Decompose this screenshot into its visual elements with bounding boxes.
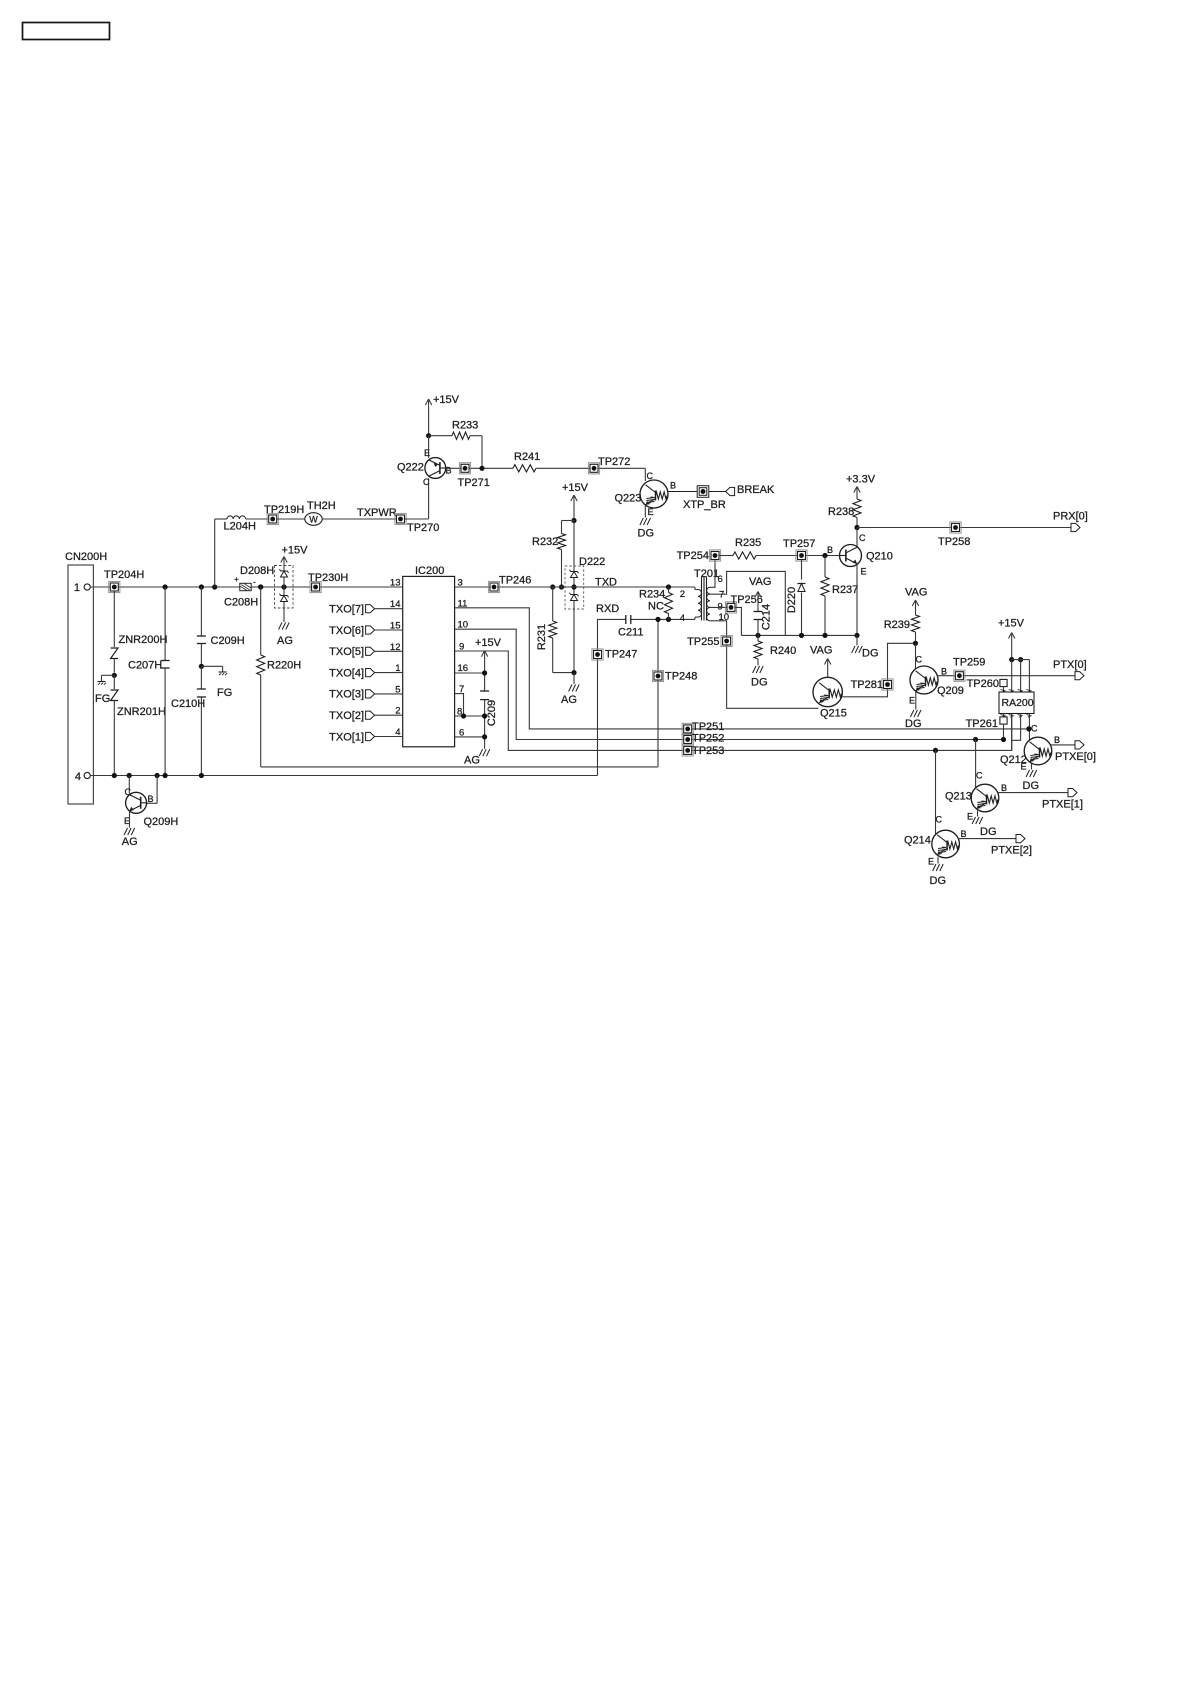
wire: Q222 base to TP272	[446, 467, 513, 469]
testpoint TP258	[950, 522, 961, 533]
svg-text:R231: R231	[536, 624, 548, 650]
svg-text:E: E	[648, 507, 654, 517]
svg-text:C207H: C207H	[128, 660, 162, 672]
svg-text:TXO[5]: TXO[5]	[329, 646, 364, 658]
svg-text:VAG: VAG	[749, 576, 771, 588]
testpoint TP256	[725, 602, 736, 613]
svg-text:TP251: TP251	[692, 721, 724, 733]
wire: CN200H pin4 net	[90, 775, 597, 777]
node: +15V branch	[1009, 657, 1014, 662]
capacitor C209	[480, 690, 489, 692]
testpoint TP271	[459, 463, 470, 474]
svg-text:Q213: Q213	[945, 791, 972, 803]
svg-text:TP254: TP254	[677, 550, 709, 562]
connector PRX[0]	[1071, 523, 1080, 531]
svg-text:2: 2	[395, 706, 400, 717]
node: TP251/Q212 junction	[1026, 726, 1031, 731]
wire: PRX[0] net	[857, 527, 1071, 529]
svg-text:C211: C211	[618, 627, 643, 639]
svg-text:DG: DG	[980, 826, 997, 838]
testpoint TP260	[1000, 679, 1007, 686]
svg-text:Q209H: Q209H	[144, 816, 179, 828]
ground AG (under D222)	[573, 673, 575, 684]
ground AG (under C209)	[479, 749, 482, 756]
svg-text:TXO[2]: TXO[2]	[329, 710, 364, 722]
node: ZNR junction	[112, 673, 117, 678]
svg-text:+15V: +15V	[562, 482, 589, 494]
testpoint XTP_BR	[697, 486, 709, 498]
node: C209H/C210H junction	[199, 664, 204, 669]
svg-text:C208H: C208H	[224, 597, 258, 609]
wire: T201 pin9 to TP256	[710, 606, 727, 608]
svg-text:C: C	[125, 787, 132, 797]
svg-text:TP247: TP247	[605, 649, 637, 661]
connector PTXE[2]	[1016, 835, 1025, 843]
Q209 emitter to ground	[915, 692, 917, 710]
svg-text:TP270: TP270	[407, 522, 439, 534]
junction dots on TXD right	[666, 584, 671, 589]
svg-text:TP272: TP272	[598, 456, 630, 468]
svg-text:14: 14	[390, 599, 401, 610]
svg-text:TP230H: TP230H	[308, 572, 348, 584]
ground FG (middle)	[219, 671, 227, 673]
testpoint TP272	[588, 463, 599, 474]
wire: R220H net to TP248 vertical	[261, 766, 658, 768]
svg-text:C: C	[859, 533, 866, 543]
wire: T201 pin10 down through TP255 to Q215	[710, 621, 819, 709]
testpoint TP281	[882, 679, 893, 690]
svg-text:DG: DG	[930, 875, 947, 887]
resistor R241	[513, 465, 536, 472]
svg-text:R239: R239	[884, 619, 910, 631]
node: R232 bottom on TXD	[559, 584, 564, 589]
svg-text:D222: D222	[579, 556, 605, 568]
svg-text:TP219H: TP219H	[264, 504, 304, 516]
svg-text:Q215: Q215	[820, 708, 847, 720]
wire: Q215 base to TP281 to R239 node	[842, 643, 915, 697]
svg-text:TXO[1]: TXO[1]	[329, 731, 364, 743]
svg-text:PTXE[0]: PTXE[0]	[1055, 751, 1096, 763]
diode D208H (dual zener, dashed box)	[275, 566, 294, 609]
svg-text:ZNR200H: ZNR200H	[119, 634, 168, 646]
testpoint TP253	[682, 745, 693, 756]
connector PTXE[0]	[1075, 741, 1084, 749]
T201 core	[701, 577, 703, 621]
svg-text:15: 15	[390, 621, 401, 632]
svg-text:E: E	[861, 567, 867, 577]
node: R237 top	[822, 553, 827, 558]
svg-text:9: 9	[718, 601, 723, 612]
testpoint TP259	[954, 670, 965, 681]
inductor L204H	[227, 516, 246, 519]
svg-text:TP252: TP252	[692, 733, 724, 745]
testpoint TP252	[682, 734, 693, 745]
capacitor C207H	[164, 587, 166, 661]
ground AG (under Q209H)	[124, 828, 127, 835]
svg-text:4: 4	[680, 613, 685, 624]
ground DG (under Q212)	[1026, 770, 1029, 777]
ground DG (under Q213)	[972, 817, 975, 824]
diode D222 (dual zener, dashed box)	[565, 566, 584, 609]
resistor R231	[550, 584, 555, 589]
svg-text:AG: AG	[122, 836, 138, 848]
svg-text:E: E	[1020, 762, 1026, 772]
svg-text:+15V: +15V	[282, 545, 309, 557]
resistor R240	[757, 635, 759, 641]
node: dot right of C208H	[258, 584, 263, 589]
Q223 emitter to ground	[644, 506, 646, 518]
svg-text:TP260: TP260	[967, 678, 999, 690]
node: R239/TP281/Q209 junction	[913, 641, 918, 646]
svg-text:R240: R240	[770, 645, 796, 657]
resistor R232	[562, 520, 575, 522]
svg-text:5: 5	[395, 684, 400, 695]
svg-text:C: C	[976, 771, 983, 781]
svg-text:W: W	[309, 515, 318, 525]
resistor R220H	[260, 587, 262, 655]
svg-text:TXO[6]: TXO[6]	[329, 625, 364, 637]
wire TXPWR	[322, 518, 396, 520]
svg-text:FG: FG	[95, 693, 110, 705]
svg-text:4: 4	[75, 771, 81, 783]
svg-text:Q209: Q209	[937, 685, 964, 697]
node: R238/PRX junction	[854, 525, 859, 530]
testpoint TP255	[721, 635, 732, 646]
wire to FG ground	[102, 674, 115, 676]
svg-text:DG: DG	[1023, 780, 1040, 792]
svg-text:Q223: Q223	[615, 493, 642, 505]
svg-text:IC200: IC200	[415, 565, 444, 577]
svg-text:C: C	[916, 655, 923, 665]
svg-text:E: E	[424, 448, 430, 458]
svg-text:TP248: TP248	[665, 671, 697, 683]
transistor Q210 (NPN)	[856, 528, 858, 547]
transistor Q209 (digital)	[915, 643, 917, 669]
Q209H collector wire	[128, 776, 130, 794]
svg-text:VAG: VAG	[810, 645, 832, 657]
svg-text:R232: R232	[532, 536, 558, 548]
ground DG (under Q223)	[640, 518, 643, 525]
svg-text:PTXE[1]: PTXE[1]	[1042, 799, 1083, 811]
svg-text:TXO[7]: TXO[7]	[329, 604, 364, 616]
svg-text:R233: R233	[452, 420, 478, 432]
svg-text:Q222: Q222	[397, 462, 424, 474]
RA200 top pins	[1011, 660, 1013, 692]
svg-text:12: 12	[390, 642, 401, 653]
svg-text:PTX[0]: PTX[0]	[1053, 659, 1087, 671]
svg-text:TP261: TP261	[966, 718, 998, 730]
svg-text:TP253: TP253	[692, 745, 724, 757]
svg-text:B: B	[961, 829, 967, 839]
connector PTXE[1]	[1068, 789, 1077, 797]
svg-text:B: B	[1054, 735, 1060, 745]
svg-text:DG: DG	[862, 648, 879, 660]
svg-text:+15V: +15V	[998, 618, 1025, 630]
svg-text:13: 13	[390, 578, 401, 589]
svg-text:XTP_BR: XTP_BR	[683, 499, 726, 511]
svg-text:FG: FG	[217, 687, 232, 699]
svg-text:DG: DG	[638, 528, 655, 540]
RA200 pin resistor marks	[1001, 690, 1006, 693]
svg-text:BREAK: BREAK	[737, 484, 775, 496]
capacitor C209H	[200, 587, 202, 636]
Q209H emitter wire	[129, 811, 131, 828]
resistor R235	[733, 552, 756, 559]
Q213 emitter to ground	[977, 811, 979, 817]
resistor R239	[912, 615, 920, 632]
testpoint TP251	[682, 723, 693, 734]
svg-text:C209H: C209H	[211, 635, 245, 647]
svg-text:R234: R234	[639, 589, 665, 601]
svg-text:AG: AG	[561, 694, 577, 706]
RA200 bottom pins	[1003, 714, 1005, 717]
wire: TP256 to bias bus	[735, 607, 741, 635]
transistor Q223 (digital)	[644, 468, 646, 481]
svg-text:ZNR201H: ZNR201H	[117, 706, 166, 718]
svg-text:PTXE[2]: PTXE[2]	[991, 845, 1032, 857]
svg-text:TP257: TP257	[783, 538, 815, 550]
wire: T201 pin6 up to TP254	[710, 560, 715, 588]
connector PTX[0]	[1075, 672, 1084, 680]
svg-text:TP255: TP255	[687, 636, 719, 648]
svg-text:C: C	[423, 477, 430, 487]
testpoint TP219H	[267, 513, 278, 524]
resistor R238	[853, 499, 861, 518]
ground DG (under R240)	[753, 666, 756, 673]
svg-text:B: B	[827, 545, 833, 555]
svg-text:TP246: TP246	[499, 575, 531, 587]
node: Q222 emitter junction	[426, 433, 431, 438]
wire: Q214 base / PTXE[2]	[958, 838, 1016, 840]
svg-text:R238: R238	[828, 506, 854, 518]
svg-text:PRX[0]: PRX[0]	[1053, 511, 1088, 523]
svg-text:DG: DG	[751, 677, 768, 689]
svg-text:R237: R237	[832, 584, 858, 596]
svg-text:1: 1	[395, 663, 400, 674]
svg-text:RA200: RA200	[1002, 697, 1034, 709]
svg-text:+: +	[234, 575, 239, 584]
capacitor C211 (series)	[625, 615, 627, 624]
ground FG (left)	[98, 681, 106, 683]
svg-text:2: 2	[680, 589, 685, 600]
svg-text:+15V: +15V	[475, 637, 502, 649]
svg-text:CN200H: CN200H	[65, 551, 107, 563]
svg-text:R235: R235	[735, 537, 761, 549]
svg-text:DG: DG	[905, 718, 922, 730]
resistor array RA200 body	[999, 692, 1034, 714]
svg-text:7: 7	[719, 589, 724, 600]
testpoint TP230H	[310, 581, 321, 592]
IC IC200 body	[403, 576, 455, 746]
testpoint TP204H	[109, 581, 120, 592]
capacitor C210H	[200, 666, 202, 689]
ground DG (under Q209)	[910, 710, 913, 717]
svg-text:L204H: L204H	[224, 521, 256, 533]
svg-text:B: B	[670, 481, 676, 491]
node: TP252 net ends	[1001, 737, 1006, 742]
svg-text:B: B	[446, 466, 452, 476]
svg-text:C: C	[1031, 724, 1038, 734]
CN200H pin 1	[84, 584, 90, 590]
wire: Q209 base / PTX[0] net	[937, 675, 1075, 677]
node: D222/R231 ground junction	[571, 670, 576, 675]
Q209H base wire	[156, 776, 158, 804]
node: TP253/Q214 junction	[933, 748, 938, 753]
svg-text:TP204H: TP204H	[104, 569, 144, 581]
testpoint TP261	[1000, 717, 1007, 724]
node: D222 on TXD	[571, 584, 576, 589]
svg-text:C210H: C210H	[171, 698, 205, 710]
svg-text:RXD: RXD	[596, 603, 619, 615]
varistor ZNR200H	[113, 592, 115, 648]
ground DG (bias bus right)	[856, 635, 858, 645]
wire: Q212 base / PTXE[0]	[1050, 744, 1075, 746]
svg-text:TP271: TP271	[458, 477, 490, 489]
wire: T201 pin7 loop to bias bus	[710, 571, 785, 635]
svg-text:1: 1	[74, 582, 80, 594]
svg-text:+3.3V: +3.3V	[846, 474, 876, 486]
ground DG (under Q214)	[933, 864, 936, 871]
connector BREAK	[726, 487, 735, 495]
Q212 emitter to ground	[1031, 764, 1033, 770]
varistor ZNR201H	[113, 675, 115, 689]
testpoint TP257	[796, 550, 807, 561]
svg-text:D208H: D208H	[240, 565, 274, 577]
svg-text:Q214: Q214	[904, 835, 931, 847]
svg-text:VAG: VAG	[905, 587, 927, 599]
node: +15V/R232 junction	[571, 518, 576, 523]
svg-text:TXO[3]: TXO[3]	[329, 689, 364, 701]
svg-text:B: B	[1001, 783, 1007, 793]
svg-text:+15V: +15V	[433, 394, 460, 406]
transistor Q215 (digital)	[813, 677, 842, 706]
wire: TP254 to Q210 base	[719, 555, 733, 557]
T201 secondary winding	[707, 587, 710, 621]
connector CN200H body	[68, 565, 93, 804]
svg-text:Q210: Q210	[866, 551, 893, 563]
svg-text:AG: AG	[277, 635, 293, 647]
wire: TXD main net from CN200H pin1 to IC200 pin13	[90, 586, 402, 588]
svg-text:C209: C209	[486, 700, 498, 726]
wire: Q213 base / PTXE[1]	[998, 792, 1068, 794]
svg-text:TXO[4]: TXO[4]	[329, 667, 364, 679]
testpoint TP247	[592, 649, 603, 660]
wire to FG ground (middle)	[201, 665, 222, 667]
transistor Q222 (PNP)	[428, 436, 430, 458]
wire: C211 to T201 pin4	[631, 618, 695, 620]
svg-text:16: 16	[458, 663, 469, 674]
Q210 emitter wire	[856, 564, 858, 635]
node: R233/base junction	[479, 466, 484, 471]
testpoint TP270	[395, 513, 406, 524]
svg-text:TP281: TP281	[851, 679, 883, 691]
wire: branch up to L204H	[214, 519, 216, 587]
svg-text:4: 4	[395, 727, 400, 738]
svg-text:R220H: R220H	[267, 660, 301, 672]
svg-text:C214: C214	[761, 604, 773, 630]
resistor R237	[824, 556, 826, 578]
svg-text:-: -	[253, 578, 256, 587]
junction dots on pin4 net	[112, 773, 117, 778]
svg-text:E: E	[967, 812, 973, 822]
title box (top-left)	[23, 23, 110, 40]
svg-text:6: 6	[718, 574, 723, 585]
transistor Q213 (digital)	[975, 740, 977, 788]
wire: pin4 net up through TP247 to RXD	[598, 619, 626, 775]
transistor Q214 (digital)	[935, 750, 937, 834]
ground AG (under D208H)	[279, 623, 282, 630]
svg-text:C: C	[936, 815, 943, 825]
resistor R234 (NC)	[668, 587, 670, 593]
capacitor C208H (polarized, in-line)	[240, 583, 251, 590]
resistor R233	[429, 435, 452, 437]
svg-text:B: B	[148, 794, 154, 804]
T201 primary winding	[698, 590, 701, 618]
svg-text:E: E	[909, 696, 915, 706]
svg-text:E: E	[928, 857, 934, 867]
diode D220 (zener)	[801, 560, 803, 636]
svg-text:TXPWR: TXPWR	[357, 507, 397, 519]
testpoint TP254	[709, 550, 720, 561]
svg-text:AG: AG	[464, 755, 480, 767]
svg-text:TP259: TP259	[953, 657, 985, 669]
testpoint TP246	[488, 581, 499, 592]
Q214 emitter to ground	[937, 857, 939, 864]
svg-text:B: B	[941, 667, 947, 677]
svg-text:R241: R241	[514, 451, 540, 463]
CN200H pin 4	[84, 772, 90, 778]
wire: bias bus	[741, 634, 857, 636]
capacitor C214	[754, 611, 763, 613]
junction dots on main wire	[163, 584, 168, 589]
testpoint TP248	[652, 670, 663, 681]
svg-text:NC: NC	[648, 601, 664, 613]
svg-text:TP258: TP258	[938, 536, 970, 548]
wire: Q223 base to BREAK	[668, 491, 726, 493]
svg-text:TH2H: TH2H	[307, 500, 336, 512]
svg-text:D220: D220	[786, 587, 798, 613]
thermistor TH2H	[305, 513, 322, 526]
